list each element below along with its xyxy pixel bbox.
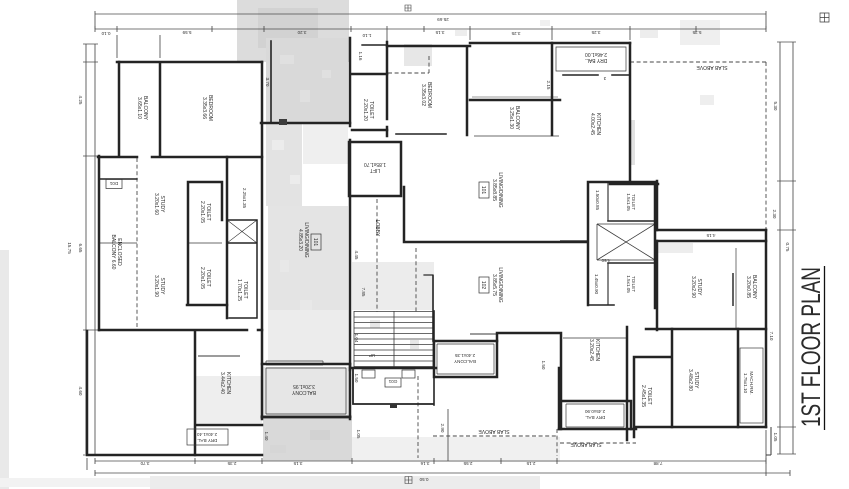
svg-text:101: 101 bbox=[480, 186, 486, 195]
svg-text:3.85x8.85: 3.85x8.85 bbox=[491, 179, 497, 201]
svg-text:15.75: 15.75 bbox=[67, 242, 72, 254]
svg-text:2.40x1.35: 2.40x1.35 bbox=[454, 353, 475, 358]
svg-text:102: 102 bbox=[480, 281, 486, 290]
svg-text:1.16: 1.16 bbox=[358, 52, 363, 61]
svg-text:2.30: 2.30 bbox=[772, 210, 777, 219]
svg-text:2.20x1.05: 2.20x1.05 bbox=[199, 267, 205, 289]
svg-text:3.48x2.80: 3.48x2.80 bbox=[687, 369, 693, 391]
svg-text:2.35: 2.35 bbox=[227, 461, 236, 466]
svg-text:3.35x3.02: 3.35x3.02 bbox=[420, 84, 426, 106]
svg-text:3.25: 3.25 bbox=[591, 30, 600, 35]
svg-text:UP: UP bbox=[369, 353, 375, 358]
svg-text:2.20x1.20: 2.20x1.20 bbox=[362, 99, 368, 121]
svg-text:0.10: 0.10 bbox=[101, 31, 110, 36]
svg-text:3.25: 3.25 bbox=[511, 31, 520, 36]
svg-text:101: 101 bbox=[312, 238, 318, 247]
svg-text:4.00x2.45: 4.00x2.45 bbox=[589, 113, 595, 135]
svg-text:1.50: 1.50 bbox=[541, 361, 546, 370]
svg-text:3.20: 3.20 bbox=[297, 30, 306, 35]
svg-text:SLAB ABOVE: SLAB ABOVE bbox=[478, 428, 510, 434]
svg-text:5.30: 5.30 bbox=[773, 102, 778, 111]
svg-text:5.59: 5.59 bbox=[182, 30, 191, 35]
svg-text:3.15: 3.15 bbox=[435, 30, 444, 35]
svg-text:3.20x0.85: 3.20x0.85 bbox=[745, 276, 751, 298]
svg-text:1.04: 1.04 bbox=[354, 334, 359, 343]
svg-text:DRY BAL.: DRY BAL. bbox=[197, 438, 218, 443]
svg-text:2.15: 2.15 bbox=[526, 461, 535, 466]
svg-text:1.50x0.85: 1.50x0.85 bbox=[595, 190, 600, 211]
svg-text:2.20x1.05: 2.20x1.05 bbox=[199, 201, 205, 223]
svg-text:6.65: 6.65 bbox=[78, 244, 83, 253]
svg-text:MACH.RM.: MACH.RM. bbox=[749, 371, 754, 394]
svg-text:3.20x1.60: 3.20x1.60 bbox=[153, 193, 159, 215]
svg-text:D01: D01 bbox=[109, 181, 118, 186]
svg-text:3.65x1.10: 3.65x1.10 bbox=[136, 97, 142, 119]
svg-text:2.40x1.40: 2.40x1.40 bbox=[196, 432, 217, 437]
svg-text:3.44x2.40: 3.44x2.40 bbox=[219, 372, 225, 394]
svg-text:G01: G01 bbox=[388, 379, 397, 384]
svg-text:1.75x1.10: 1.75x1.10 bbox=[743, 373, 748, 394]
svg-text:1.70x1.25: 1.70x1.25 bbox=[236, 279, 242, 301]
svg-text:1.85x1.70: 1.85x1.70 bbox=[364, 161, 386, 167]
svg-text:0.75: 0.75 bbox=[785, 243, 790, 252]
svg-text:4.85x3.20: 4.85x3.20 bbox=[297, 229, 303, 251]
svg-text:3: 3 bbox=[603, 76, 606, 81]
svg-text:BALCONY 6.60: BALCONY 6.60 bbox=[110, 235, 116, 270]
svg-text:3.16: 3.16 bbox=[420, 461, 429, 466]
svg-text:1.05: 1.05 bbox=[356, 430, 361, 439]
svg-text:3.20x1.95: 3.20x1.95 bbox=[293, 383, 315, 389]
svg-text:1.50: 1.50 bbox=[354, 374, 359, 383]
svg-text:DRY BAL.: DRY BAL. bbox=[585, 415, 606, 420]
svg-text:SLAB ABOVE: SLAB ABOVE bbox=[570, 441, 602, 447]
svg-text:4.25: 4.25 bbox=[78, 96, 83, 105]
svg-text:3.20x1.90: 3.20x1.90 bbox=[153, 275, 159, 297]
svg-text:4.15: 4.15 bbox=[706, 233, 715, 238]
svg-text:2.55: 2.55 bbox=[463, 461, 472, 466]
svg-text:3.70: 3.70 bbox=[140, 461, 149, 466]
svg-text:1.45x0.90: 1.45x0.90 bbox=[594, 274, 599, 295]
svg-text:1ST FLOOR PLAN: 1ST FLOOR PLAN bbox=[796, 267, 826, 427]
svg-text:2.25x1.35: 2.25x1.35 bbox=[242, 188, 247, 209]
svg-text:7.10: 7.10 bbox=[769, 332, 774, 341]
svg-text:3.20x2.45: 3.20x2.45 bbox=[588, 339, 594, 361]
svg-text:1.05: 1.05 bbox=[773, 433, 778, 442]
svg-text:2.45x0.90: 2.45x0.90 bbox=[584, 409, 605, 414]
svg-text:3.20x2.90: 3.20x2.90 bbox=[690, 276, 696, 298]
svg-text:3.35x3.66: 3.35x3.66 bbox=[201, 97, 207, 119]
svg-text:7.88: 7.88 bbox=[653, 461, 662, 466]
svg-text:3.25x1.30: 3.25x1.30 bbox=[508, 107, 514, 129]
svg-text:1.5x1.05: 1.5x1.05 bbox=[626, 275, 631, 293]
svg-text:7.85: 7.85 bbox=[361, 288, 366, 297]
svg-text:1.10: 1.10 bbox=[362, 33, 371, 38]
svg-text:4.50: 4.50 bbox=[601, 258, 610, 263]
svg-text:1.5x1.05: 1.5x1.05 bbox=[626, 193, 631, 211]
svg-text:25.69: 25.69 bbox=[437, 17, 449, 22]
svg-text:4.45: 4.45 bbox=[354, 251, 359, 260]
svg-text:1.40: 1.40 bbox=[264, 432, 269, 441]
svg-text:LOBBY: LOBBY bbox=[374, 220, 380, 237]
svg-text:2.46x1.00: 2.46x1.00 bbox=[585, 51, 607, 57]
svg-text:3.15: 3.15 bbox=[293, 461, 302, 466]
svg-text:3.70: 3.70 bbox=[265, 78, 270, 87]
svg-text:4.60: 4.60 bbox=[78, 387, 83, 396]
svg-text:5.35: 5.35 bbox=[692, 30, 701, 35]
svg-text:2.45x1.35: 2.45x1.35 bbox=[640, 385, 646, 407]
svg-text:2.90: 2.90 bbox=[440, 424, 445, 433]
svg-text:2.15: 2.15 bbox=[546, 81, 551, 90]
svg-text:0.50: 0.50 bbox=[419, 477, 428, 482]
svg-text:SLAB ABOVE: SLAB ABOVE bbox=[696, 64, 728, 70]
svg-text:BALCONY: BALCONY bbox=[454, 359, 476, 364]
svg-text:3.85x5.75: 3.85x5.75 bbox=[491, 274, 497, 296]
